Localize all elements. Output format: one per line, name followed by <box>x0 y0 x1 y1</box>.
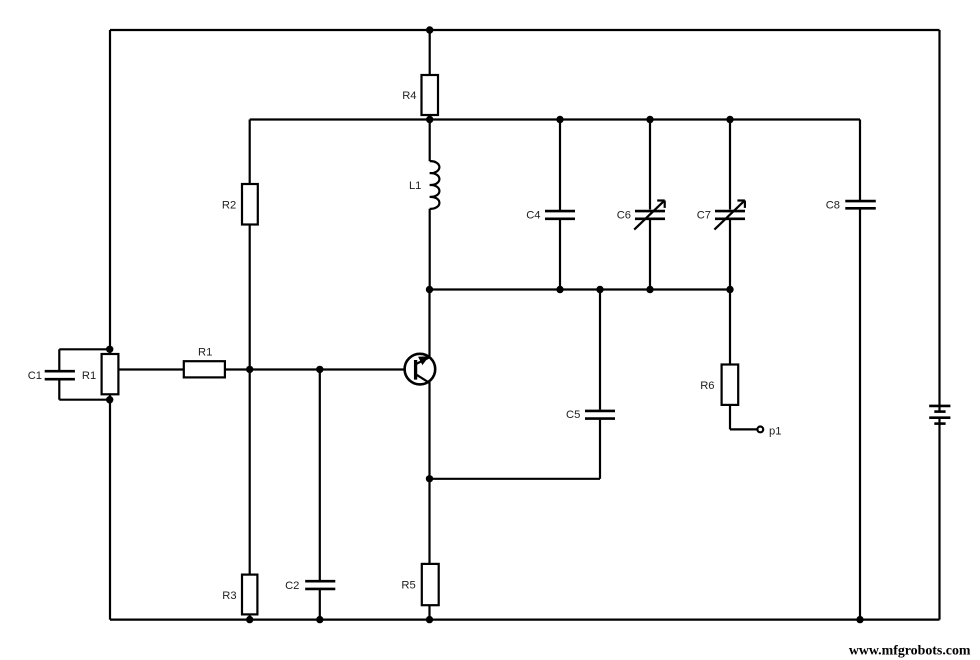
svg-text:L1: L1 <box>409 180 421 192</box>
svg-text:C1: C1 <box>28 370 42 382</box>
svg-text:R4: R4 <box>402 90 416 102</box>
svg-text:R3: R3 <box>222 590 236 602</box>
svg-text:www.mfgrobots.com: www.mfgrobots.com <box>849 644 971 659</box>
svg-text:R6: R6 <box>700 380 714 392</box>
svg-text:C4: C4 <box>526 209 540 221</box>
svg-text:R2: R2 <box>222 200 236 212</box>
svg-text:C6: C6 <box>617 209 631 221</box>
svg-text:R5: R5 <box>401 579 415 591</box>
svg-text:C8: C8 <box>826 199 840 211</box>
svg-text:C2: C2 <box>285 580 299 592</box>
svg-text:C7: C7 <box>697 209 711 221</box>
svg-text:R1: R1 <box>198 347 212 359</box>
svg-text:R1: R1 <box>82 370 96 382</box>
svg-text:C5: C5 <box>566 409 580 421</box>
svg-text:p1: p1 <box>769 425 781 437</box>
